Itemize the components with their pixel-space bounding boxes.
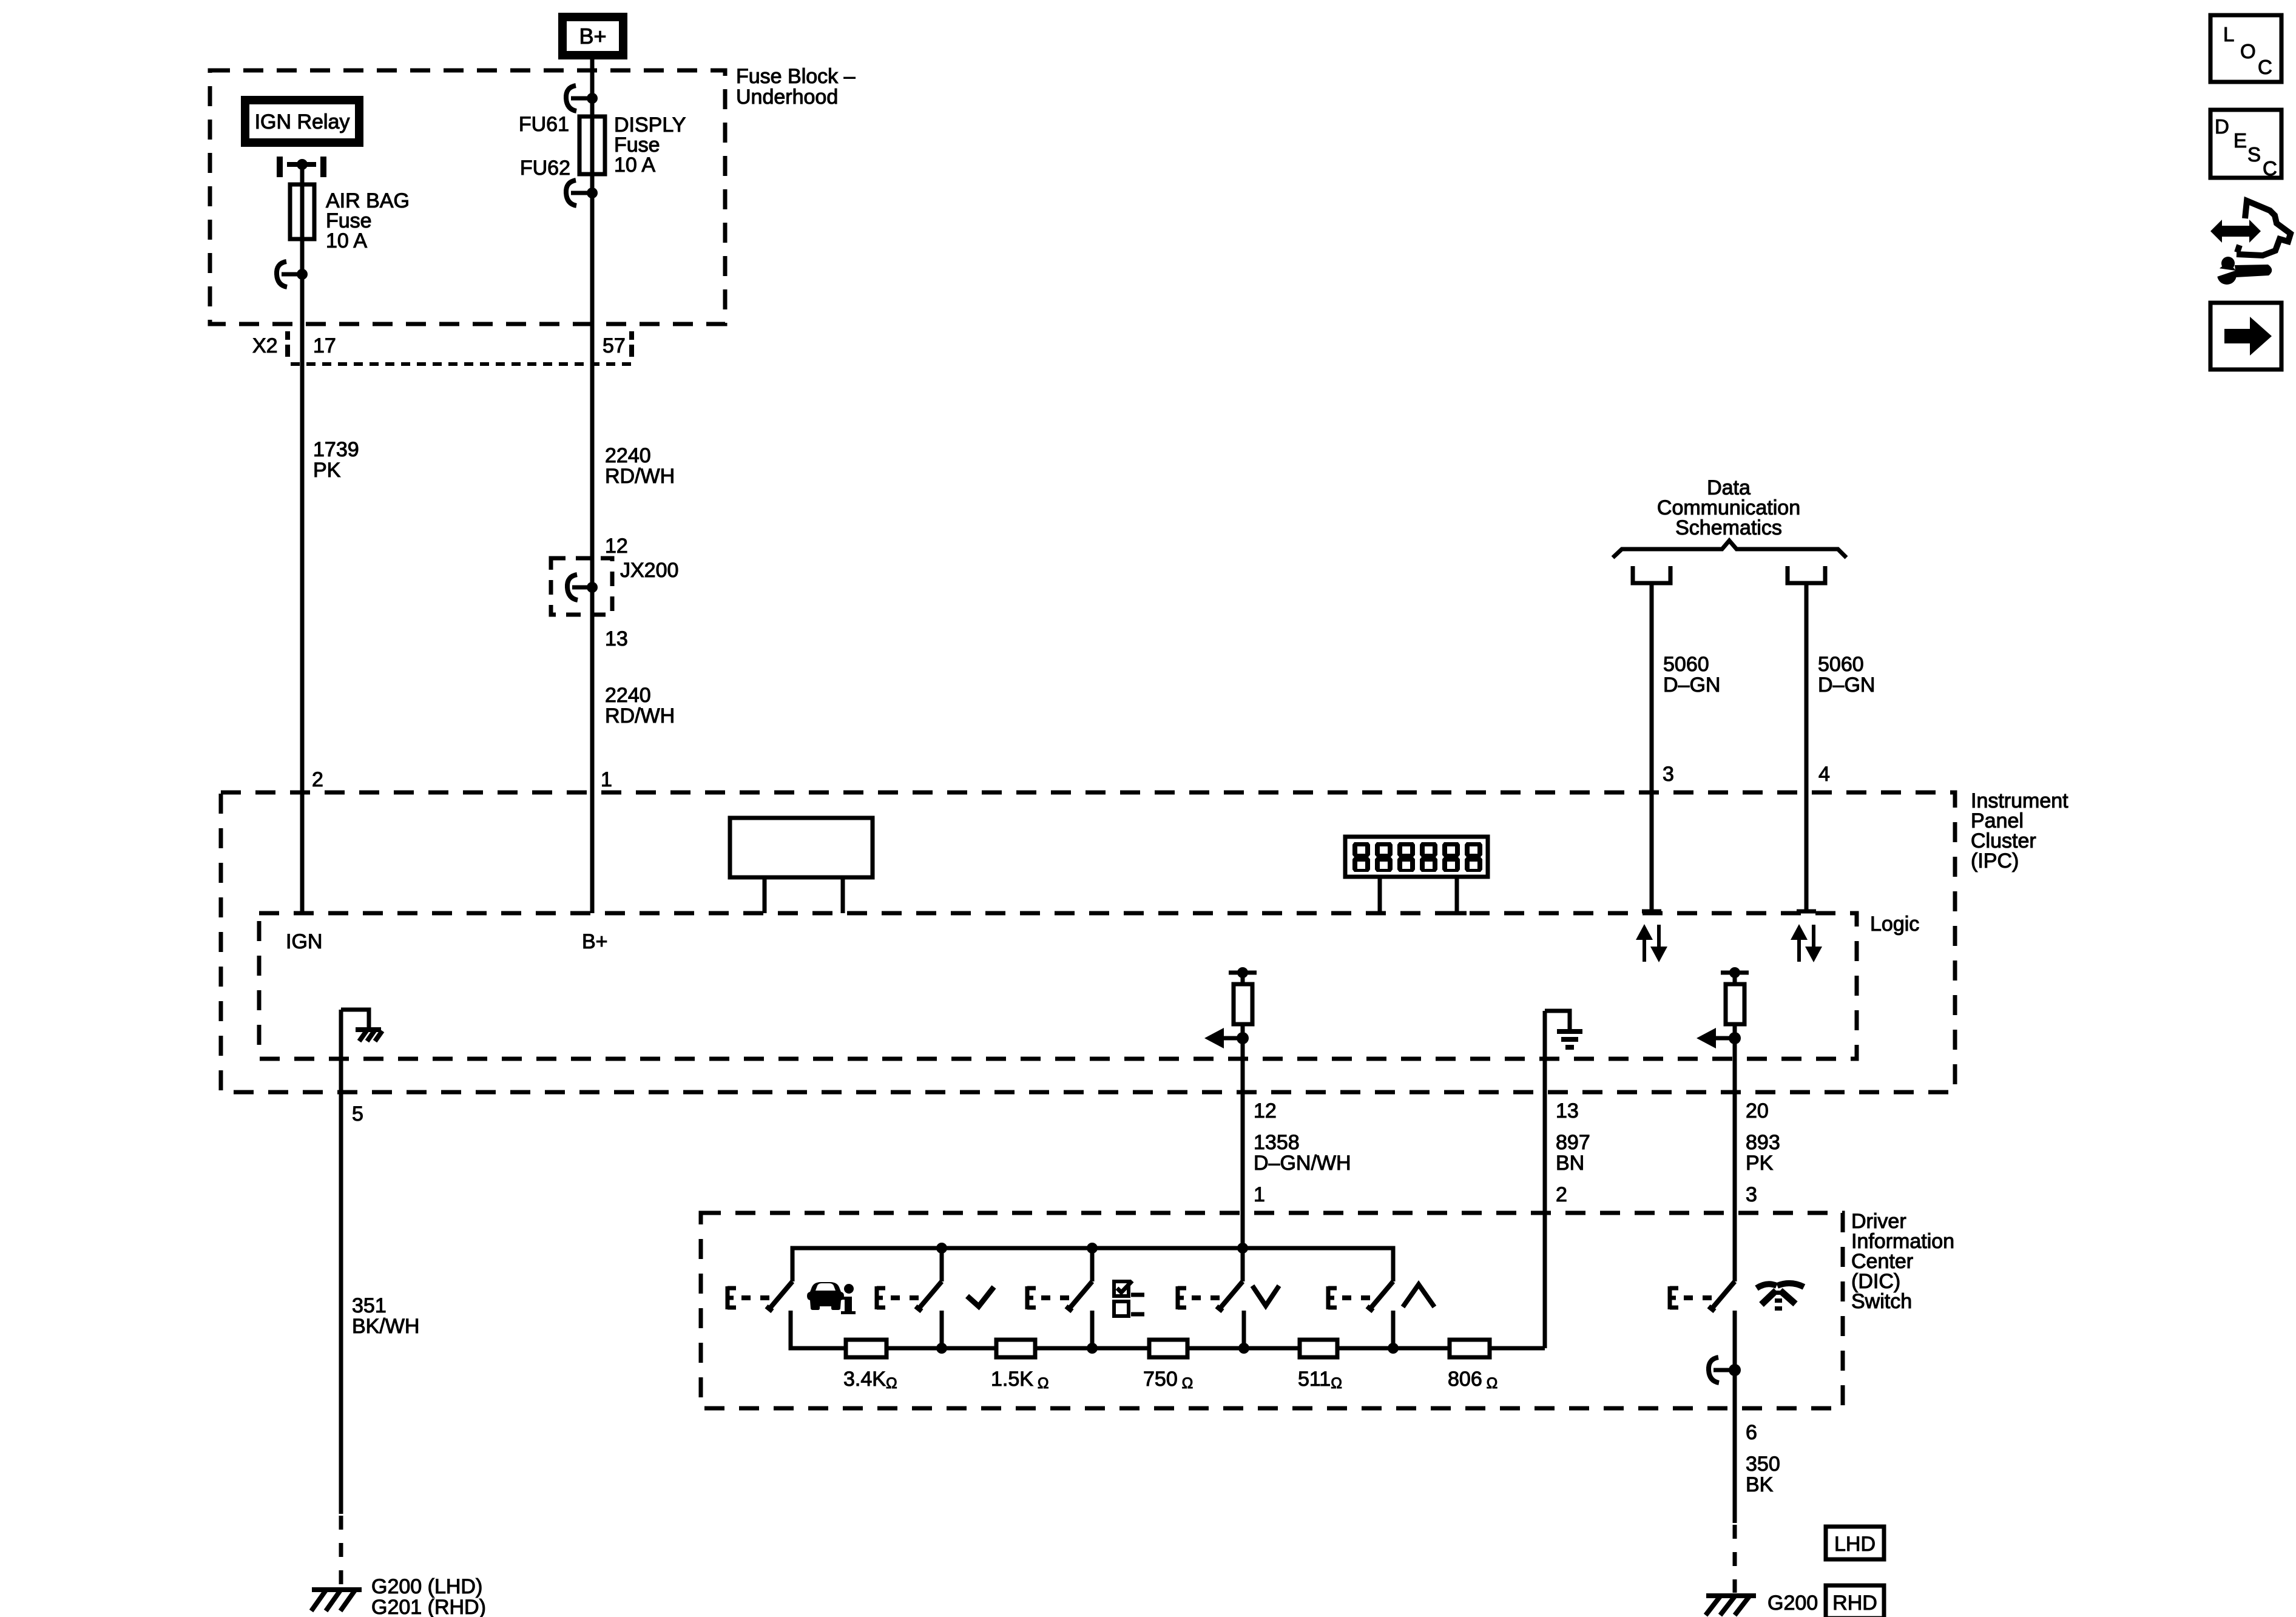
- RHD box: [1826, 1585, 1884, 1617]
- DIC top bus wire: [792, 1248, 1393, 1281]
- wire W2 inside IPC to logic box: [590, 792, 595, 913]
- svg-text:Underhood: Underhood: [736, 86, 838, 109]
- svg-text:Schematics: Schematics: [1675, 516, 1782, 539]
- wire W_dc1 inside IPC: [1642, 792, 1661, 911]
- switch S6 E terminal: [1670, 1286, 1678, 1309]
- G200/G201 labels: [371, 1575, 486, 1617]
- switch S1 dashes: [741, 1295, 771, 1300]
- switch S2 E terminal: [877, 1286, 885, 1309]
- svg-text:20: 20: [1746, 1099, 1769, 1122]
- svg-text:BN: BN: [1556, 1152, 1584, 1175]
- switch S2 pivot: [940, 1248, 944, 1281]
- up/down data arrows pair 1: [1636, 924, 1667, 962]
- logic inner dashed box: [259, 913, 1857, 1059]
- W5 earth ground symbol: [1557, 1031, 1582, 1047]
- svg-text:G200 (LHD): G200 (LHD): [371, 1575, 482, 1598]
- DIC label: [1851, 1210, 1954, 1313]
- switch S4 E terminal: [1178, 1286, 1186, 1309]
- svg-text:12: 12: [1254, 1099, 1277, 1122]
- svg-text:Logic: Logic: [1870, 913, 1919, 936]
- wire label 351 BK/WH: [352, 1294, 419, 1338]
- checklist icon: [1114, 1281, 1144, 1316]
- W4 supply node dot: [1237, 967, 1248, 978]
- svg-text:(IPC): (IPC): [1971, 849, 2019, 873]
- wire W2 through JX200: [590, 558, 595, 615]
- switch S3 dashes: [1041, 1295, 1070, 1300]
- Data Communication Schematics label: [1657, 476, 1800, 539]
- in-line connector clip on W1: [277, 262, 308, 287]
- wire label 2240 RD/WH lower: [605, 684, 675, 727]
- clip inside JX200: [567, 575, 598, 600]
- switch S6 dashes: [1684, 1295, 1713, 1300]
- svg-text:JX200: JX200: [620, 559, 678, 582]
- vehicle info icon (car): [807, 1282, 844, 1310]
- svg-text:1358: 1358: [1254, 1131, 1300, 1154]
- svg-text:13: 13: [1556, 1099, 1579, 1122]
- wire label 1739 PK: [313, 438, 359, 482]
- svg-text:BK: BK: [1746, 1473, 1774, 1496]
- down chevron icon: [1252, 1286, 1279, 1306]
- LOC legend box: [2210, 15, 2281, 82]
- IPC label: [1971, 789, 2068, 873]
- svg-text:BK/WH: BK/WH: [352, 1315, 419, 1338]
- checkmark icon: [967, 1287, 994, 1306]
- resistor 806: [1450, 1340, 1490, 1357]
- switch S5 lower stub: [1391, 1311, 1396, 1348]
- ground symbol G200 right: [1706, 1596, 1756, 1615]
- svg-text:13: 13: [605, 627, 628, 650]
- switch S4 blade: [1217, 1281, 1243, 1311]
- IPC internal ground wire W3 jog: [341, 1010, 369, 1028]
- svg-text:17: 17: [313, 334, 336, 357]
- DIC bottom bus wire: [791, 1311, 1545, 1348]
- wire label 893 PK: [1746, 1131, 1780, 1175]
- wire W6 below DIC: [1733, 1408, 1737, 1523]
- svg-text:350: 350: [1746, 1453, 1780, 1476]
- fuse DISPLY (wire passes through): [590, 116, 595, 174]
- svg-text:3: 3: [1746, 1183, 1757, 1206]
- gauge left leg: [763, 877, 767, 913]
- DISPLY fuse label: [614, 113, 686, 177]
- svg-text:D: D: [2215, 115, 2229, 138]
- clip connector on S6 wire: [1709, 1357, 1741, 1383]
- switch S3 blade: [1066, 1281, 1092, 1311]
- display left leg: [1378, 877, 1382, 913]
- AIR BAG fuse label: [326, 189, 410, 252]
- svg-text:12: 12: [605, 535, 628, 558]
- resistor 3.4K: [846, 1340, 886, 1357]
- svg-text:893: 893: [1746, 1131, 1780, 1154]
- wire W1 inside IPC to logic box: [300, 792, 305, 913]
- JX200 junction connector dashed box: [551, 558, 612, 615]
- fuse AIR BAG (wire passes through): [300, 184, 305, 239]
- W6 pull-up resistor: [1733, 973, 1737, 984]
- svg-text:B+: B+: [582, 930, 608, 953]
- wire W2 to JX200: [590, 364, 595, 558]
- wire W2 from B+: [590, 55, 595, 116]
- wire W3 dashed segment: [339, 1516, 343, 1587]
- svg-text:2: 2: [312, 768, 323, 791]
- display right leg: [1447, 877, 1467, 913]
- DIC switch dashed box: [701, 1213, 1843, 1408]
- node top bus at sw3: [1087, 1243, 1098, 1254]
- svg-text:351: 351: [352, 1294, 387, 1317]
- connector U2 to data schematics: [1788, 566, 1825, 587]
- resistor 1.5K: [996, 1340, 1035, 1357]
- svg-text:RD/WH: RD/WH: [605, 465, 675, 488]
- svg-text:57: 57: [603, 334, 626, 357]
- trip road icon: [1757, 1283, 1804, 1311]
- svg-text:C: C: [2258, 56, 2272, 78]
- clip connector FU61: [566, 86, 598, 111]
- svg-text:L: L: [2223, 23, 2234, 46]
- svg-text:C: C: [2263, 157, 2277, 180]
- connector X2 tick right: [629, 331, 634, 357]
- fuse block label: [736, 65, 856, 109]
- svg-text:Fuse Block –: Fuse Block –: [736, 65, 856, 88]
- svg-text:3: 3: [1663, 763, 1674, 786]
- fuse block underhood dashed box: [210, 70, 725, 324]
- brace under data communication: [1613, 541, 1846, 558]
- W6 wire below resistor: [1733, 1024, 1737, 1281]
- wire label 2240 RD/WH upper: [605, 444, 675, 488]
- svg-text:X2: X2: [252, 334, 278, 357]
- svg-text:E: E: [2234, 129, 2247, 152]
- W4 output arrow: [1204, 1028, 1249, 1048]
- svg-text:897: 897: [1556, 1131, 1590, 1154]
- wire W1 to IPC: [300, 362, 305, 792]
- next-page arrow legend box: [2210, 303, 2281, 370]
- display module box: [1345, 837, 1488, 877]
- IGN Relay box: [245, 100, 359, 143]
- svg-text:B+: B+: [579, 24, 606, 49]
- switch S5 blade: [1367, 1281, 1393, 1311]
- adjust hand-tool legend icon: [2210, 201, 2291, 285]
- svg-text:D–GN: D–GN: [1663, 673, 1720, 697]
- switch S4 pivot: [1241, 1248, 1245, 1281]
- connector X2 tick left: [285, 331, 290, 357]
- W5 internal earth ground jog: [1545, 1011, 1570, 1030]
- wire label 1358 D-GN/WH: [1254, 1131, 1351, 1175]
- up/down data arrows pair 2: [1791, 924, 1822, 962]
- switch S5 E terminal: [1328, 1286, 1337, 1309]
- up chevron icon: [1403, 1284, 1434, 1307]
- switch S1 blade: [766, 1281, 792, 1311]
- IPC outer dashed box: [221, 792, 1955, 1092]
- svg-text:PK: PK: [1746, 1152, 1774, 1175]
- switch S4 dashes: [1192, 1295, 1221, 1300]
- switch S2 dashes: [891, 1295, 920, 1300]
- W4 pull-up resistor: [1241, 973, 1245, 984]
- svg-text:PK: PK: [313, 459, 341, 482]
- switch S3 pivot: [1090, 1248, 1095, 1281]
- display digits 888888: [1352, 842, 1482, 872]
- svg-text:1: 1: [601, 768, 612, 791]
- ground symbol G200/G201 left: [311, 1590, 362, 1611]
- switch S2 blade: [916, 1281, 942, 1311]
- node bottom bus at sw5: [1388, 1343, 1399, 1354]
- clip connector FU62: [566, 180, 598, 206]
- svg-text:IGN: IGN: [286, 930, 322, 953]
- wire W1 relay to fuse: [300, 164, 305, 184]
- wire label 350 BK: [1746, 1453, 1780, 1496]
- wire label 897 BN: [1556, 1131, 1590, 1175]
- wire label 5060 D-GN right: [1818, 653, 1875, 697]
- switch S4 lower stub: [1242, 1311, 1246, 1348]
- svg-text:RHD: RHD: [1832, 1592, 1877, 1615]
- svg-text:Switch: Switch: [1851, 1290, 1912, 1313]
- relay contact symbol: [280, 157, 323, 177]
- W6 output arrow: [1697, 1028, 1741, 1048]
- connector X2 row lower dotted line: [291, 362, 636, 366]
- wire W1 below fuse: [300, 239, 305, 362]
- svg-text:RD/WH: RD/WH: [605, 704, 675, 727]
- switch S6 lower stub: [1733, 1311, 1737, 1408]
- node bottom bus at sw4: [1238, 1343, 1249, 1354]
- wire from U1 to IPC pin 3: [1650, 585, 1654, 792]
- svg-text:O: O: [2240, 40, 2256, 62]
- wire W6 dashed segment: [1733, 1525, 1737, 1593]
- LHD box: [1826, 1527, 1884, 1559]
- svg-text:LHD: LHD: [1834, 1533, 1876, 1556]
- svg-text:G200: G200: [1768, 1592, 1818, 1615]
- node top bus at sw2: [936, 1243, 947, 1254]
- gauges rectangle in IPC: [730, 818, 873, 877]
- svg-text:FU62: FU62: [520, 157, 570, 180]
- W4 wire below resistor: [1241, 1024, 1245, 1248]
- svg-text:D–GN/WH: D–GN/WH: [1254, 1152, 1351, 1175]
- wire from U2 to IPC pin 4: [1805, 585, 1809, 792]
- svg-text:4: 4: [1818, 763, 1830, 786]
- info i glyph: [841, 1284, 856, 1314]
- switch S1 E terminal: [728, 1286, 736, 1309]
- svg-text:6: 6: [1746, 1421, 1757, 1444]
- svg-text:10 A: 10 A: [614, 154, 655, 177]
- resistor 511: [1300, 1340, 1337, 1357]
- node bottom bus at sw3: [1087, 1343, 1098, 1354]
- wire label 5060 D-GN left: [1663, 653, 1720, 697]
- svg-text:10 A: 10 A: [326, 229, 367, 252]
- svg-text:FU61: FU61: [519, 113, 569, 136]
- svg-text:S: S: [2247, 143, 2261, 166]
- X2 label: [252, 334, 626, 357]
- switch S2 lower stub: [940, 1311, 944, 1348]
- node bottom bus at sw2: [936, 1343, 947, 1354]
- gauge right leg: [841, 877, 845, 913]
- svg-text:1739: 1739: [313, 438, 359, 461]
- svg-text:IGN Relay: IGN Relay: [255, 110, 350, 133]
- wire W_dc2 inside IPC: [1797, 792, 1816, 911]
- wire W2 to X2 row: [590, 174, 595, 364]
- svg-text:2240: 2240: [605, 684, 651, 707]
- svg-text:1: 1: [1254, 1183, 1265, 1206]
- B+ power symbol box: [562, 17, 623, 55]
- svg-text:5: 5: [352, 1102, 363, 1126]
- W6 supply node dot: [1729, 967, 1740, 978]
- IPC internal chassis ground symbol: [356, 1030, 382, 1041]
- svg-text:2240: 2240: [605, 444, 651, 467]
- W6 internal supply T-bar: [1721, 971, 1749, 975]
- W5 wire down through DIC: [1543, 1011, 1547, 1348]
- svg-text:D–GN: D–GN: [1818, 673, 1875, 697]
- switch S1 lower stub: [789, 1311, 793, 1348]
- svg-text:5060: 5060: [1818, 653, 1864, 676]
- wire W2 to IPC: [590, 615, 595, 792]
- switch S3 lower stub: [1090, 1311, 1095, 1348]
- DESC legend box: [2210, 110, 2281, 180]
- svg-text:5060: 5060: [1663, 653, 1709, 676]
- wire W3 down from logic: [339, 1010, 343, 1514]
- resistor 750: [1149, 1340, 1187, 1357]
- node top bus at W4: [1237, 1243, 1248, 1254]
- switch S6 blade: [1709, 1281, 1735, 1311]
- connector U1 to data schematics: [1633, 566, 1670, 587]
- W4 internal supply T-bar: [1229, 971, 1257, 975]
- svg-text:2: 2: [1556, 1183, 1567, 1206]
- switch S5 dashes: [1342, 1295, 1371, 1300]
- switch S3 E terminal: [1027, 1286, 1036, 1309]
- svg-text:G201 (RHD): G201 (RHD): [371, 1596, 486, 1617]
